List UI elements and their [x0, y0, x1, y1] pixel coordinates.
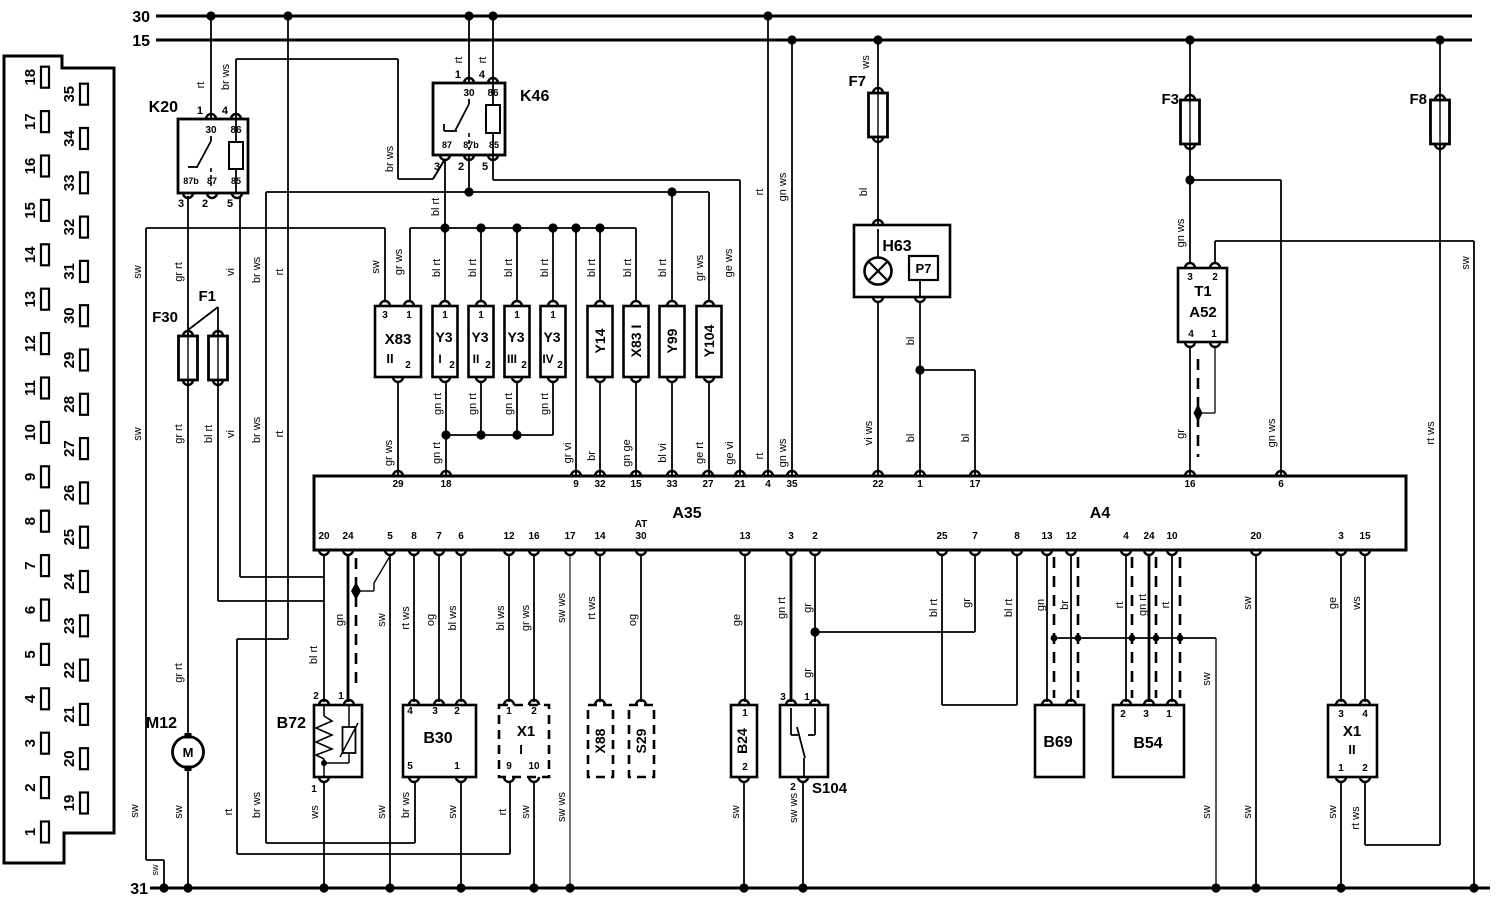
svg-text:1: 1: [804, 692, 810, 703]
wire gr ws to Y104 pin1: [708, 192, 710, 301]
svg-text:2: 2: [812, 531, 818, 542]
A-unit bottom pin 6: [456, 550, 466, 555]
connector pin 20: [80, 748, 88, 769]
sensor B30: [403, 705, 476, 777]
svg-text:2: 2: [454, 706, 460, 717]
svg-text:14: 14: [594, 531, 606, 542]
wire bl F7 to H63: [877, 137, 879, 225]
wire Y3 supply bus: [410, 227, 636, 229]
sensor B69: [1035, 705, 1084, 777]
svg-text:br ws: br ws: [251, 791, 263, 818]
svg-text:rt ws: rt ws: [400, 606, 412, 630]
wire gr rt F30 to M12: [187, 380, 189, 733]
svg-text:31: 31: [130, 881, 148, 898]
connector X1 I: [499, 705, 549, 777]
svg-text:4: 4: [22, 694, 39, 703]
svg-text:ws: ws: [309, 805, 321, 820]
svg-text:Y104: Y104: [701, 324, 717, 357]
switch S104: [780, 705, 828, 777]
svg-text:8: 8: [22, 517, 39, 525]
wire bl vi Y99 to A35 pin33: [671, 382, 673, 476]
svg-text:25: 25: [936, 531, 948, 542]
svg-text:gn ws: gn ws: [1175, 218, 1187, 247]
svg-text:1: 1: [454, 761, 460, 772]
wire br A4 pin12 to B69: [1070, 554, 1072, 702]
connector pin 35: [80, 84, 88, 105]
svg-text:Y3: Y3: [471, 329, 488, 345]
connector block outline: [4, 56, 114, 863]
A-unit top pin 6: [1276, 471, 1286, 476]
svg-text:F3: F3: [1161, 91, 1179, 108]
svg-text:15: 15: [630, 479, 642, 490]
svg-text:9: 9: [506, 761, 512, 772]
svg-text:10: 10: [1166, 531, 1178, 542]
A-unit bottom pin 10: [1167, 550, 1177, 555]
A-unit top pin 15: [631, 471, 641, 476]
svg-text:2: 2: [405, 360, 411, 371]
A-unit bottom pin 17: [565, 550, 575, 555]
svg-text:sw: sw: [173, 805, 185, 819]
shield screen of T1: [1197, 359, 1200, 457]
wire ws B72 pin1 to bus31: [323, 782, 325, 888]
shield screen of B72: [355, 558, 358, 690]
svg-text:6: 6: [1278, 479, 1284, 490]
svg-text:sw: sw: [132, 265, 144, 279]
svg-text:sw: sw: [1201, 805, 1213, 819]
svg-text:1: 1: [442, 310, 448, 321]
svg-text:T1: T1: [1194, 283, 1212, 300]
wire bl rt A4 pin25 to pin8 loop: [941, 554, 943, 705]
svg-text:5: 5: [482, 161, 488, 173]
svg-text:1: 1: [311, 784, 317, 795]
wire vi from K20 pin5: [239, 196, 241, 577]
svg-text:1: 1: [22, 828, 39, 836]
svg-text:III: III: [507, 352, 517, 366]
svg-text:2: 2: [1212, 272, 1218, 283]
svg-text:3: 3: [1143, 709, 1149, 720]
wire from K46 pin2 to node line: [468, 155, 470, 192]
A-unit bottom pin 15: [1360, 550, 1370, 555]
wire gn rt A4 pin24 to B54 pin3: [1148, 554, 1151, 702]
connector pin 16: [41, 156, 49, 177]
A-unit bottom pin 16: [529, 550, 539, 555]
valve Y99: [660, 306, 685, 377]
connector pin 26: [80, 482, 88, 503]
svg-text:gn rt: gn rt: [539, 393, 551, 415]
fuse F1: [209, 336, 228, 380]
valve Y3 I: [433, 306, 458, 377]
wire ge A4 pin3 to X1 II pin3: [1340, 554, 1342, 702]
svg-text:9: 9: [573, 479, 579, 490]
connector pin 2: [41, 777, 49, 798]
wire to Y3 II pin1: [480, 228, 482, 301]
svg-text:bl: bl: [960, 434, 972, 443]
A-unit bottom pin 5: [385, 550, 395, 555]
svg-text:6: 6: [22, 606, 39, 614]
svg-text:S104: S104: [812, 780, 848, 797]
svg-text:2: 2: [521, 360, 527, 371]
svg-text:bl rt: bl rt: [308, 646, 320, 664]
wire ge rt Y104 to A35 pin27: [708, 382, 710, 476]
svg-text:16: 16: [22, 158, 39, 175]
svg-text:sw ws: sw ws: [556, 792, 568, 822]
svg-text:bl vi: bl vi: [657, 443, 669, 463]
svg-text:4: 4: [1123, 531, 1129, 542]
wire bl rt from F1 down: [217, 380, 219, 601]
wire rt ws X1 II pin2 to F8 wire: [1364, 782, 1366, 845]
svg-text:rt: rt: [754, 453, 766, 460]
svg-text:24: 24: [342, 531, 354, 542]
A-unit bottom pin 8: [1012, 550, 1022, 555]
svg-text:12: 12: [1065, 531, 1077, 542]
svg-text:ge: ge: [731, 614, 743, 626]
svg-text:1: 1: [1211, 329, 1217, 340]
svg-text:rt: rt: [274, 269, 286, 276]
svg-text:bl ws: bl ws: [495, 605, 507, 631]
svg-text:F1: F1: [198, 288, 216, 305]
svg-text:18: 18: [22, 69, 39, 86]
svg-text:I: I: [438, 352, 441, 366]
wire rt A4 pin4 to B54 pin2: [1125, 554, 1127, 702]
wire ge A35 pin13 to B24 pin1: [744, 554, 746, 702]
svg-text:32: 32: [594, 479, 606, 490]
svg-text:16: 16: [528, 531, 540, 542]
svg-text:sw: sw: [1201, 672, 1213, 686]
A-unit top pin 18: [441, 471, 451, 476]
svg-text:24: 24: [61, 573, 78, 590]
valve Y3 III: [505, 306, 530, 377]
A-unit bottom pin 24: [343, 550, 353, 555]
svg-text:29: 29: [392, 479, 404, 490]
svg-text:S29: S29: [633, 728, 649, 753]
svg-text:8: 8: [1014, 531, 1020, 542]
svg-text:bl: bl: [858, 188, 870, 197]
wire sw B24 pin2 to bus31: [743, 782, 745, 888]
A-unit top pin 35: [787, 471, 797, 476]
svg-text:17: 17: [969, 479, 981, 490]
svg-text:19: 19: [61, 795, 78, 812]
svg-text:18: 18: [440, 479, 452, 490]
wire gn ws F3 to T1 pin3: [1189, 144, 1191, 264]
svg-text:ge ws: ge ws: [723, 248, 735, 277]
wire gr ws A35 pin16 to X1 pin2: [533, 554, 535, 702]
svg-text:4: 4: [1362, 709, 1368, 720]
svg-text:13: 13: [739, 531, 751, 542]
svg-text:16: 16: [1184, 479, 1196, 490]
svg-text:ws: ws: [1351, 596, 1363, 611]
svg-text:15: 15: [132, 33, 150, 50]
svg-text:2: 2: [790, 782, 796, 793]
A-unit top pin 1: [915, 471, 925, 476]
svg-text:33: 33: [666, 479, 678, 490]
svg-text:10: 10: [22, 424, 39, 441]
A-unit top pin 4: [763, 471, 773, 476]
svg-text:25: 25: [61, 529, 78, 546]
svg-text:gn ws: gn ws: [1266, 418, 1278, 447]
svg-text:gn ws: gn ws: [777, 172, 789, 201]
svg-text:AT: AT: [635, 519, 648, 530]
svg-text:6: 6: [458, 531, 464, 542]
wire bl ws A35 pin6 to B30 pin2: [460, 554, 462, 702]
wire bl rt from K46 pin3 to Y3 bus: [444, 159, 446, 228]
svg-text:rt: rt: [1160, 602, 1172, 609]
connector pin 1: [41, 822, 49, 843]
A-unit top pin 32: [595, 471, 605, 476]
wire sw ws A35 pin17 to bus31: [569, 554, 571, 888]
svg-text:gn: gn: [1035, 599, 1047, 611]
svg-text:sw: sw: [132, 427, 144, 441]
wire bus15 to F3: [1189, 40, 1191, 100]
svg-text:14: 14: [22, 246, 39, 263]
A-unit bottom pin 7: [970, 550, 980, 555]
svg-text:gn rt: gn rt: [467, 393, 479, 415]
wire to Y3 IV pin1: [552, 228, 554, 301]
svg-text:sw ws: sw ws: [788, 793, 800, 823]
svg-text:13: 13: [1041, 531, 1053, 542]
svg-text:rt: rt: [497, 809, 509, 816]
A-unit top pin 27: [703, 471, 713, 476]
connector X83 II: [375, 306, 421, 377]
svg-text:gn ge: gn ge: [621, 439, 633, 467]
connector pin 27: [80, 438, 88, 459]
valve Y3 IV: [541, 306, 566, 377]
svg-text:2: 2: [458, 161, 464, 173]
svg-text:gr ws: gr ws: [393, 248, 405, 275]
svg-text:87: 87: [207, 176, 217, 186]
svg-text:gn rt: gn rt: [431, 442, 443, 464]
A-unit top pin 21: [735, 471, 745, 476]
svg-text:rt ws: rt ws: [586, 596, 598, 620]
connector pin 21: [80, 704, 88, 725]
svg-text:11: 11: [22, 380, 39, 396]
thermistor in B72: [348, 705, 350, 727]
connector pin 17: [41, 111, 49, 132]
wire bl rt to X83 I pin1: [635, 228, 637, 301]
svg-text:bl rt: bl rt: [430, 198, 442, 216]
svg-text:32: 32: [61, 219, 78, 236]
connector pin 33: [80, 172, 88, 193]
svg-text:2: 2: [313, 691, 319, 702]
wire gn A4 pin13 to B69: [1046, 554, 1048, 702]
svg-text:B72: B72: [277, 715, 306, 732]
valve X83 I: [624, 306, 649, 377]
A-unit top pin 9: [571, 471, 581, 476]
svg-text:35: 35: [61, 86, 78, 103]
svg-text:4: 4: [407, 706, 413, 717]
svg-text:gn rt: gn rt: [1137, 594, 1149, 616]
wire gr junction to A4 pin7: [810, 627, 819, 636]
A-unit top pin 33: [667, 471, 677, 476]
A-unit top pin 29: [393, 471, 403, 476]
svg-text:17: 17: [564, 531, 576, 542]
svg-text:3: 3: [1187, 272, 1193, 283]
connector pin 10: [41, 422, 49, 443]
svg-text:P7: P7: [916, 261, 932, 276]
wire rt from bus30 to A35 pin4: [767, 16, 769, 476]
svg-text:ge: ge: [1327, 597, 1339, 609]
connector X1 II: [1328, 705, 1377, 777]
svg-text:7: 7: [436, 531, 442, 542]
svg-text:br ws: br ws: [251, 416, 263, 443]
wire br Y14 to A35 pin32: [599, 382, 601, 476]
svg-text:15: 15: [22, 202, 39, 219]
A-unit bottom pin 13: [1042, 550, 1052, 555]
svg-text:9: 9: [22, 473, 39, 481]
svg-text:gr ws: gr ws: [383, 439, 395, 466]
wire ws A4 pin15 to X1 II pin4: [1364, 554, 1366, 702]
svg-text:ge rt: ge rt: [694, 442, 706, 464]
svg-text:rt: rt: [754, 189, 766, 196]
svg-text:gr rt: gr rt: [173, 424, 185, 444]
wire sw T1 pin2 to bus31 right: [1214, 241, 1216, 264]
wire sw B30 pin1 to bus31: [460, 782, 462, 888]
svg-text:gn ws: gn ws: [777, 438, 789, 467]
svg-text:3: 3: [432, 706, 438, 717]
sensor B54: [1113, 705, 1184, 777]
svg-text:33: 33: [61, 174, 78, 191]
svg-text:1: 1: [742, 708, 748, 719]
svg-text:2: 2: [1120, 709, 1126, 720]
A-unit top pin 22: [873, 471, 883, 476]
svg-text:gn rt: gn rt: [503, 393, 515, 415]
svg-text:F30: F30: [152, 309, 178, 326]
svg-text:2: 2: [1362, 763, 1368, 774]
svg-text:2: 2: [557, 360, 563, 371]
shield screens of B69 B54 cables: [1053, 557, 1056, 698]
wire rt from bus30 to X1 pin9: [287, 16, 289, 639]
wire to Y3 III pin1: [516, 228, 518, 301]
wire to Y3 I pin1: [444, 228, 446, 301]
wire rt X1 pin9 down: [509, 782, 511, 854]
svg-text:3: 3: [382, 310, 388, 321]
svg-text:1: 1: [197, 105, 203, 117]
connector pin 6: [41, 600, 49, 621]
svg-text:4: 4: [1188, 329, 1194, 340]
A-unit bottom pin 12: [1066, 550, 1076, 555]
svg-text:87: 87: [442, 140, 452, 150]
svg-text:bl rt: bl rt: [586, 259, 598, 277]
svg-text:2: 2: [22, 783, 39, 791]
svg-text:K46: K46: [520, 88, 549, 105]
wire T1 pin1 to shield: [1214, 346, 1216, 413]
svg-text:rt ws: rt ws: [1425, 421, 1437, 445]
A-unit bottom pin 3: [786, 550, 796, 555]
svg-text:5: 5: [22, 650, 39, 658]
svg-text:B24: B24: [734, 728, 750, 754]
svg-text:bl rt: bl rt: [467, 259, 479, 277]
fuse F7: [869, 93, 888, 137]
valve Y3 II: [469, 306, 494, 377]
svg-text:A4: A4: [1090, 505, 1111, 522]
A-unit bottom pin 12: [504, 550, 514, 555]
svg-text:H63: H63: [882, 238, 911, 255]
svg-text:3: 3: [22, 739, 39, 747]
valve Y14: [588, 306, 613, 377]
svg-text:5: 5: [407, 761, 413, 772]
wire shield tie to bus31: [1054, 637, 1216, 639]
svg-text:12: 12: [503, 531, 515, 542]
svg-text:1: 1: [338, 691, 344, 702]
svg-text:1: 1: [1166, 709, 1172, 720]
wire gr ws X83II pin2 to A35 pin29: [397, 382, 399, 476]
svg-text:23: 23: [61, 617, 78, 634]
svg-text:7: 7: [22, 561, 39, 569]
svg-text:br: br: [586, 451, 598, 461]
wire A35 pin5 shield link: [374, 556, 390, 583]
relay K20: [178, 119, 248, 193]
svg-text:gr rt: gr rt: [173, 663, 185, 683]
A-unit bottom pin 8: [409, 550, 419, 555]
svg-text:24: 24: [1143, 531, 1155, 542]
svg-text:og: og: [627, 614, 639, 626]
svg-text:30: 30: [463, 88, 475, 99]
wire og A35 pin7 to B30 pin3: [438, 554, 440, 702]
svg-text:5: 5: [387, 531, 393, 542]
svg-text:sw: sw: [370, 260, 382, 274]
svg-text:4: 4: [479, 69, 486, 81]
svg-text:A52: A52: [1189, 304, 1217, 321]
connector pin 8: [41, 511, 49, 532]
svg-text:87b: 87b: [183, 176, 199, 186]
svg-text:br ws: br ws: [400, 791, 412, 818]
svg-text:sw: sw: [129, 804, 141, 818]
svg-text:bl: bl: [905, 434, 917, 443]
wire rt ws F8 to X1 II pin2: [1439, 144, 1441, 845]
connector pin 9: [41, 466, 49, 487]
svg-text:gr vi: gr vi: [562, 443, 574, 464]
wire bus15 to F8: [1439, 40, 1441, 100]
svg-text:30: 30: [132, 9, 150, 26]
svg-text:B30: B30: [423, 730, 452, 747]
svg-text:1: 1: [478, 310, 484, 321]
wire rt A4 pin10 to B54 pin1: [1171, 554, 1173, 702]
connector pin 24: [80, 571, 88, 592]
wire gn ws F3 branch to A4 pin6: [1190, 179, 1281, 181]
svg-text:bl rt: bl rt: [1003, 599, 1015, 617]
A-unit bottom pin 24: [1144, 550, 1154, 555]
wire gr A35 pin2 to S104 pin1: [814, 554, 816, 702]
svg-text:1: 1: [1338, 763, 1344, 774]
svg-text:gr: gr: [802, 668, 814, 678]
svg-text:I: I: [519, 742, 523, 757]
wire to X83II pin3: [384, 228, 386, 301]
svg-text:F7: F7: [848, 73, 866, 90]
svg-text:30: 30: [205, 125, 217, 136]
svg-text:21: 21: [61, 706, 78, 723]
connector pin 29: [80, 350, 88, 371]
svg-text:20: 20: [318, 531, 330, 542]
wire rt from bus30 to K46 pin1: [468, 16, 470, 83]
wire gr rt K20 pin3 to fuse F30: [187, 196, 189, 336]
svg-text:sw: sw: [150, 864, 160, 876]
svg-text:sw: sw: [1242, 805, 1254, 819]
connector pin 15: [41, 200, 49, 221]
wire gn rt A35 pin3 to S104 pin3: [790, 554, 793, 702]
svg-text:bl rt: bl rt: [203, 425, 215, 443]
svg-text:10: 10: [528, 761, 540, 772]
svg-text:X1: X1: [517, 723, 535, 740]
wire sw X1 II pin1 to bus31: [1340, 782, 1342, 888]
svg-text:X83: X83: [385, 331, 412, 348]
svg-text:X88: X88: [592, 728, 608, 753]
svg-text:sw: sw: [730, 805, 742, 819]
svg-text:20: 20: [61, 750, 78, 767]
svg-text:X1: X1: [1343, 723, 1361, 740]
wire rt ws A35 pin8 to B30 pin4: [413, 554, 415, 702]
svg-text:rt: rt: [453, 57, 465, 64]
wire gn ge X83I to A35 pin15: [635, 382, 637, 476]
svg-text:II: II: [386, 351, 393, 366]
